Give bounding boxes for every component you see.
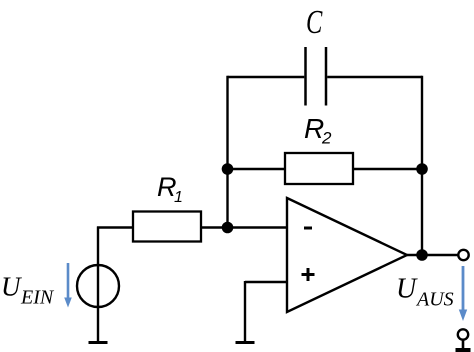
svg-text:C: C	[306, 4, 323, 41]
svg-text:EIN: EIN	[20, 287, 55, 309]
svg-text:U: U	[396, 274, 418, 305]
svg-text:U: U	[1, 272, 22, 302]
svg-text:1: 1	[174, 189, 183, 206]
svg-text:AUS: AUS	[415, 289, 454, 311]
svg-text:2: 2	[321, 129, 332, 148]
